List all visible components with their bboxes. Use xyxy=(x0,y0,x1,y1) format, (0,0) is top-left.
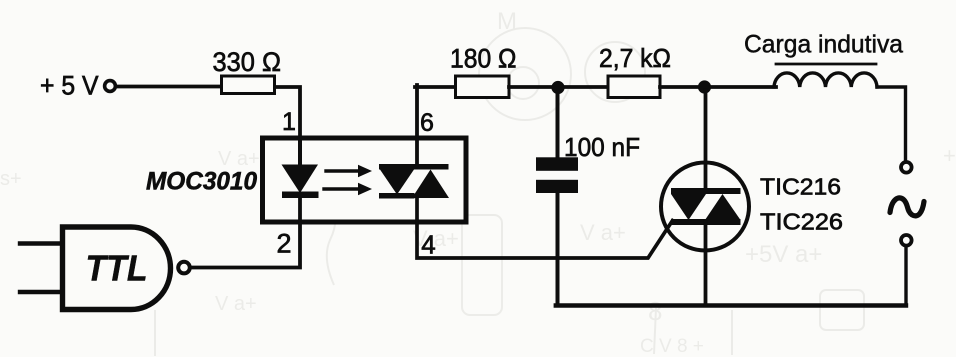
TTL gate U2 input wire 1 xyxy=(20,241,61,245)
svg-text:100 nF: 100 nF xyxy=(564,132,640,162)
resistor R1 330ohm xyxy=(222,76,275,94)
svg-text:s+: s+ xyxy=(0,168,22,190)
inductor L1 xyxy=(774,73,877,87)
photo-triac bottom bar xyxy=(379,193,415,199)
TTL gate U2 input wire 2 xyxy=(20,290,61,294)
triac Q1 circle xyxy=(661,163,749,251)
svg-text:2: 2 xyxy=(276,229,291,259)
wire R1 to pin1 xyxy=(275,87,300,139)
wire pin4 down and right to gate xyxy=(417,198,673,258)
svg-text:1: 1 xyxy=(282,108,296,136)
capacitor C1 bottom plate xyxy=(536,180,578,193)
resistor R2 180ohm xyxy=(456,76,510,98)
wire R2 to node A xyxy=(509,85,608,89)
svg-text:TIC226: TIC226 xyxy=(760,209,843,235)
svg-text:C V 8 +: C V 8 + xyxy=(640,336,704,357)
svg-text:4: 4 xyxy=(421,230,435,260)
wire top rail pin6 to R2 xyxy=(415,85,457,89)
wire pin6 up to top rail xyxy=(415,85,419,166)
underline of load label xyxy=(776,63,876,66)
photo-triac right triangle xyxy=(412,170,449,199)
svg-text:6: 6 xyxy=(420,109,434,137)
wire pin2 from LED to TTL output xyxy=(190,198,300,268)
svg-text:V a+: V a+ xyxy=(215,293,257,315)
arrow 2 xyxy=(324,187,360,190)
arrow 1 xyxy=(326,169,360,172)
triac Q1 right triangle xyxy=(705,194,741,220)
wire +5V to R1 xyxy=(116,85,222,89)
svg-text:330 Ω: 330 Ω xyxy=(213,47,282,77)
svg-text:TIC216: TIC216 xyxy=(760,174,841,200)
triac Q1 bottom bar MT1 xyxy=(671,219,741,225)
TTL gate U2 body xyxy=(63,227,171,310)
TTL inverter bubble xyxy=(178,262,190,274)
svg-text:180 Ω: 180 Ω xyxy=(450,44,517,74)
svg-text:2,7 kΩ: 2,7 kΩ xyxy=(599,43,671,73)
op-to-coupler U1 MOC3010 box xyxy=(263,138,467,222)
svg-text:8: 8 xyxy=(648,296,662,326)
svg-text:+5V a+: +5V a+ xyxy=(745,241,822,268)
resistor R3 2.7k xyxy=(608,76,660,98)
wire AC bottom to bottom rail xyxy=(904,246,907,306)
wire node B down to triac Q1 xyxy=(704,90,708,190)
svg-text:Carga indutiva: Carga indutiva xyxy=(744,31,903,59)
AC terminal top xyxy=(901,162,912,173)
AC source tilde xyxy=(890,198,924,216)
wire C1 to bottom rail xyxy=(556,191,560,306)
LED D1 anode wire xyxy=(298,140,302,166)
AC terminal bottom xyxy=(901,235,912,246)
wire triac MT1 to bottom rail xyxy=(704,222,708,306)
photo-triac left triangle xyxy=(380,170,414,195)
LED D1 cathode bar xyxy=(282,192,319,199)
wire node A down to C1 xyxy=(556,90,560,159)
terminal +5V xyxy=(105,81,116,92)
svg-text:TTL: TTL xyxy=(86,248,148,289)
photo-triac in U1 : top bar xyxy=(379,164,449,170)
triac Q1 top bar MT2 xyxy=(671,188,741,194)
triac Q1 left triangle xyxy=(671,194,706,220)
svg-text:+: + xyxy=(943,143,956,168)
node B junction dot xyxy=(698,80,711,93)
capacitor C1 top plate xyxy=(536,157,578,171)
svg-text:MOC3010: MOC3010 xyxy=(146,168,257,196)
bottom rail wire xyxy=(556,303,906,307)
wire R3 to node B xyxy=(660,85,776,89)
LED D1 triangle xyxy=(282,165,319,194)
svg-text:+ 5 V: + 5 V xyxy=(40,71,99,101)
svg-text:V a+: V a+ xyxy=(580,220,626,245)
wire L1 to AC corner xyxy=(877,87,906,161)
svg-text:V a+: V a+ xyxy=(413,226,459,251)
node A junction dot xyxy=(551,81,564,94)
